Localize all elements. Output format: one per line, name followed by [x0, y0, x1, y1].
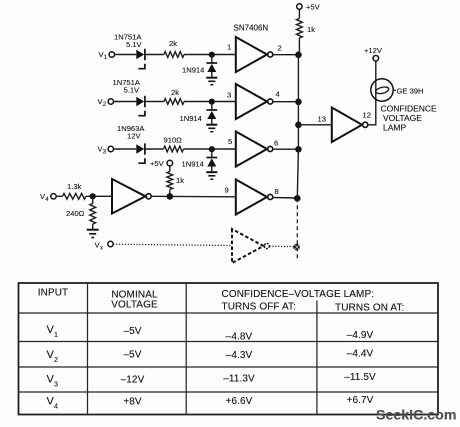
node V1 terminal: [99, 50, 115, 61]
table: confidence voltage lamp thresholds: [19, 283, 439, 415]
wire node to 240 ohm: [92, 196, 94, 203]
wire V2 terminal to zener: [114, 101, 137, 103]
resistor 2k (V1): [164, 39, 184, 57]
node V4 terminal: [40, 192, 56, 203]
svg-text:–4.4V: –4.4V: [347, 349, 374, 360]
wire zener to 910 ohm (V3): [145, 148, 164, 150]
node V2 terminal: [98, 97, 114, 108]
svg-text:2k: 2k: [171, 88, 179, 97]
lamp GE 39H: [371, 79, 424, 101]
op-amp U1 inverter E pins 13,12: [318, 108, 371, 143]
diode 1N914 (V1 clamp): [182, 55, 217, 78]
svg-text:2: 2: [54, 355, 58, 364]
svg-text:3: 3: [227, 91, 231, 100]
svg-text:1.3k: 1.3k: [67, 182, 82, 191]
svg-text:3: 3: [54, 380, 58, 389]
node bus/V2 output: [295, 99, 302, 106]
wire V1 terminal to zener: [115, 54, 137, 56]
svg-text:–5V: –5V: [123, 350, 141, 361]
svg-text:910Ω: 910Ω: [164, 136, 183, 145]
resistor 1.3k (V4): [63, 182, 87, 199]
svg-text:+6.7V: +6.7V: [347, 395, 374, 406]
svg-text:240Ω: 240Ω: [66, 209, 85, 218]
wire V3 terminal to zener: [114, 148, 137, 150]
svg-text:–4.3V: –4.3V: [226, 350, 253, 361]
svg-text:+5V: +5V: [306, 3, 321, 12]
wire 240 ohm to ground: [92, 224, 94, 229]
svg-text:2: 2: [278, 44, 282, 53]
svg-text:+5V: +5V: [150, 159, 165, 168]
wire zener to 2k (V2): [145, 101, 164, 103]
svg-text:LAMP: LAMP: [383, 123, 406, 133]
node bus/V1 output: [295, 52, 302, 59]
svg-text:INPUT: INPUT: [38, 288, 69, 299]
op-amp U1 inverter C pins 5,6: [228, 132, 278, 167]
diode 1N914 (V3 clamp): [182, 149, 218, 172]
label confidence voltage lamp: [381, 104, 438, 133]
+5V terminal (top): [297, 3, 321, 12]
op-amp U1 inverter A pins 1,2: [227, 37, 282, 72]
svg-text:+12V: +12V: [364, 46, 383, 55]
svg-text:VOLTAGE: VOLTAGE: [111, 300, 158, 311]
wire U1E output through lamp to +12V terminal: [368, 61, 376, 125]
svg-text:–4.9V: –4.9V: [347, 330, 374, 341]
svg-text:12: 12: [363, 111, 371, 120]
svg-text:5.1V: 5.1V: [126, 40, 143, 49]
node junction (V1 row): [209, 52, 215, 58]
svg-text:9: 9: [225, 186, 229, 195]
svg-text:2k: 2k: [169, 39, 177, 48]
svg-text:–4.8V: –4.8V: [226, 332, 253, 343]
label SN7406N: [234, 24, 269, 33]
zener diode 1N751A 5.1V (V1): [114, 33, 145, 69]
svg-text:5: 5: [228, 137, 232, 146]
svg-text:TURNS OFF AT:: TURNS OFF AT:: [222, 302, 296, 313]
svg-text:8: 8: [275, 187, 279, 196]
wire R 1k to bus: [298, 38, 300, 55]
op-amp U1 inverter D pins 9,8: [225, 180, 279, 215]
ground (V3 clamp): [206, 172, 217, 179]
svg-text:CONFIDENCE: CONFIDENCE: [381, 104, 438, 114]
svg-text:GE 39H: GE 39H: [397, 87, 424, 96]
wire 2k to inverter U1B input: [184, 101, 236, 103]
svg-text:1N914: 1N914: [182, 160, 204, 169]
watermark SeekIC.com: [376, 408, 456, 424]
op-amp U1 inverter B pins 3,4: [227, 84, 280, 119]
table row V1: [47, 324, 374, 343]
resistor 910 ohm (V3): [164, 136, 184, 152]
svg-text:1N914: 1N914: [180, 114, 202, 123]
+12V terminal: [364, 46, 383, 61]
node bus/V3 output: [295, 146, 302, 153]
svg-text:TURNS ON AT:: TURNS ON AT:: [335, 303, 404, 314]
op-amp U1 spare inverter (dashed): [232, 229, 269, 263]
ground (240 ohm): [87, 230, 99, 238]
ground (V1 clamp): [206, 78, 217, 85]
svg-text:1k: 1k: [307, 25, 315, 34]
wire 1.3k to inverter input (V4 row): [86, 195, 112, 197]
svg-text:–11.3V: –11.3V: [223, 374, 255, 385]
wire U1C output to bus: [273, 148, 299, 150]
table row V3: [47, 372, 377, 389]
svg-text:SeekIC.com: SeekIC.com: [376, 408, 456, 424]
table row V2: [47, 349, 374, 365]
node junction (V3 row): [209, 146, 215, 152]
svg-text:4: 4: [54, 402, 58, 411]
node bus branch to U1E: [295, 122, 302, 129]
svg-text:x: x: [100, 246, 103, 252]
wire +5V terminal to R 1k: [298, 9, 300, 18]
svg-text:–11.5V: –11.5V: [344, 372, 376, 383]
svg-text:4: 4: [276, 90, 280, 99]
node 1k/V4 row junction: [167, 193, 174, 200]
svg-text:1: 1: [54, 330, 58, 339]
svg-text:6: 6: [274, 139, 278, 148]
wire dashed bus (spare inverter): [296, 198, 298, 259]
wire U1D output to bus: [273, 197, 297, 200]
wire U1A output to bus: [273, 54, 299, 56]
resistor 2k (V2): [164, 88, 184, 104]
wire buffer output to inverter U1D input: [151, 195, 236, 198]
svg-text:CONFIDENCE–VOLTAGE LAMP:: CONFIDENCE–VOLTAGE LAMP:: [222, 289, 375, 300]
wire bus vertical: [297, 55, 298, 199]
node bus/V4 output: [294, 195, 301, 202]
svg-text:13: 13: [318, 115, 326, 124]
svg-text:1N914: 1N914: [182, 66, 204, 75]
wire 910 ohm to inverter U1C input: [184, 148, 236, 150]
svg-text:1k: 1k: [176, 176, 184, 185]
svg-text:–5V: –5V: [123, 326, 141, 337]
diode 1N914 (V2 clamp): [180, 102, 218, 125]
table header text: [38, 288, 405, 314]
node hatched junction (spare output): [293, 244, 300, 251]
svg-text:5.1V: 5.1V: [124, 86, 141, 95]
resistor 1k (mid pull-up): [167, 172, 184, 190]
svg-text:VOLTAGE: VOLTAGE: [383, 113, 422, 123]
resistor 1k (top pull-up): [297, 19, 316, 39]
svg-text:SN7406N: SN7406N: [234, 24, 269, 33]
wire bus to inverter U1E input: [298, 124, 331, 126]
svg-text:12V: 12V: [127, 132, 141, 141]
svg-text:+6.6V: +6.6V: [226, 396, 253, 407]
wire zener to 2k (V1): [145, 54, 164, 56]
zener diode 1N963A 12V (V3): [117, 124, 145, 163]
+5V terminal (mid pull-up): [150, 159, 173, 168]
wire U1B output to bus: [273, 101, 299, 103]
wire Vx dotted to spare inverter input: [113, 244, 232, 245]
table row V4: [47, 395, 374, 411]
inverter buffer (V4 input stage): [112, 179, 151, 214]
wire V4 terminal to 1.3k: [56, 195, 62, 197]
svg-text:+8V: +8V: [123, 397, 142, 408]
wire 1k to V4 row: [169, 190, 171, 197]
svg-text:1: 1: [227, 43, 231, 52]
wire +5V to 1k (mid): [169, 166, 171, 172]
zener diode 1N751A 5.1V (V2): [113, 78, 145, 116]
node Vx terminal: [95, 241, 114, 252]
wire spare inverter output dotted to bus: [269, 245, 293, 247]
node junction (V2 row): [209, 99, 215, 105]
svg-text:–12V: –12V: [121, 375, 145, 386]
node V3 terminal: [98, 145, 114, 156]
node junction 240 ohm tap: [90, 193, 96, 199]
resistor 240 ohm: [66, 204, 96, 225]
wire 2k to inverter U1A input: [184, 54, 236, 56]
ground (V2 clamp): [206, 125, 217, 132]
